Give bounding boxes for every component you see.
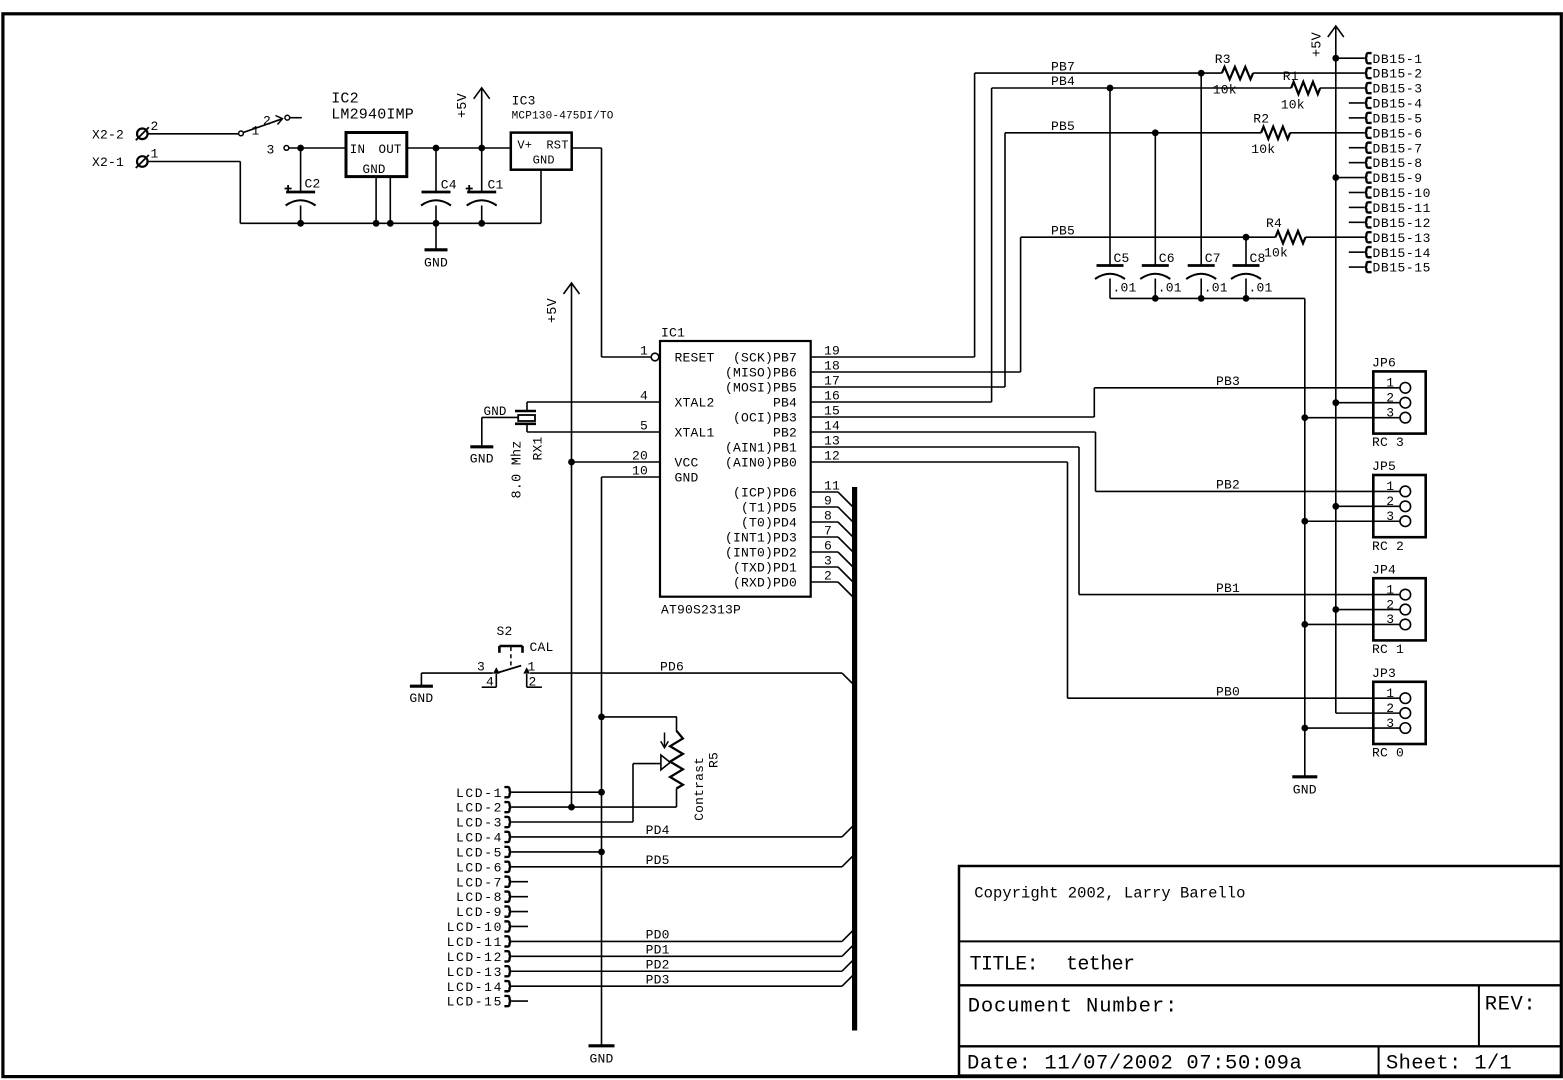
svg-text:PD3: PD3 <box>646 972 670 987</box>
pin number 14 <box>824 419 840 434</box>
svg-text:C2: C2 <box>305 177 321 192</box>
svg-text:DB15-10: DB15-10 <box>1373 186 1431 201</box>
stub wire LCD-8 <box>511 896 528 898</box>
label R5 (rotated) <box>706 752 721 768</box>
svg-text:GND: GND <box>409 691 433 706</box>
wire LCD-3 to R5 wiper <box>511 764 661 822</box>
capacitor C6 <box>1140 133 1175 299</box>
connector JP5 <box>1373 475 1425 537</box>
label IC3 <box>512 93 536 108</box>
svg-text:Copyright 2002, Larry Barello: Copyright 2002, Larry Barello <box>974 885 1245 903</box>
svg-text:PB5: PB5 <box>1051 223 1075 238</box>
wire net PB4 (IC1 pin 16 to R1 and DB15-3) <box>811 85 1291 402</box>
wire R3 to DB15-2 <box>1253 72 1364 74</box>
svg-text:10k: 10k <box>1251 142 1275 157</box>
svg-text:LM2940IMP: LM2940IMP <box>331 106 414 123</box>
wire net PD1 from LCD-12 to bus <box>511 945 853 957</box>
svg-text:GND: GND <box>470 451 494 466</box>
resistor R4 <box>1276 231 1306 243</box>
resistor R3 <box>1222 67 1253 79</box>
label RC 0 <box>1372 746 1404 761</box>
svg-text:X2-2: X2-2 <box>92 127 124 142</box>
connector X2-2 <box>92 119 159 142</box>
svg-text:V+: V+ <box>517 139 532 153</box>
connector pin DB15-12 <box>1349 216 1431 231</box>
resistor R2 <box>1261 127 1290 139</box>
net label GND at resonator <box>484 405 507 419</box>
net label PB4 <box>1051 74 1075 89</box>
svg-text:Date: 11/07/2002 07:50:09a: Date: 11/07/2002 07:50:09a <box>967 1053 1302 1076</box>
net label PD2 <box>646 957 670 972</box>
pin number 12 <box>824 449 840 464</box>
svg-text:XTAL1: XTAL1 <box>675 425 715 440</box>
svg-text:PB3: PB3 <box>1216 374 1240 389</box>
net label PD4 <box>646 823 670 838</box>
pin number 4 <box>640 389 648 404</box>
S2 pin number 4 <box>482 674 497 690</box>
svg-text:TITLE:: TITLE: <box>970 954 1038 977</box>
capacitor C7 <box>1186 73 1221 298</box>
label CAL <box>530 640 554 655</box>
wire IC1 PD5 pin to bus <box>811 507 854 523</box>
svg-text:GND: GND <box>533 154 555 168</box>
svg-text:XTAL2: XTAL2 <box>675 395 715 410</box>
svg-text:IC3: IC3 <box>512 93 536 108</box>
connector pin LCD-10 <box>447 920 512 935</box>
wire net PB5 (IC1 pin 17 to R2 and DB15-6) <box>811 129 1261 387</box>
svg-text:PD2: PD2 <box>646 957 670 972</box>
value label 10k of R3 <box>1213 83 1237 98</box>
wire GND to JP5 pin 3 <box>1305 520 1400 522</box>
svg-text:RC 1: RC 1 <box>1372 642 1404 657</box>
svg-text:RC 0: RC 0 <box>1372 746 1404 761</box>
svg-text:1: 1 <box>1386 686 1394 701</box>
microcontroller IC1 AT90S2313P <box>660 341 811 597</box>
label RC 3 <box>1372 435 1404 450</box>
pin number 20 <box>632 449 648 464</box>
connector pin DB15-15 <box>1349 261 1431 276</box>
svg-text:LCD-11: LCD-11 <box>447 935 503 950</box>
value label .01 of C5 <box>1113 280 1137 295</box>
svg-text:LCD-6: LCD-6 <box>456 860 503 875</box>
net label PB2 <box>1216 478 1240 493</box>
wire IC1 XTAL1 pin 5 <box>527 431 660 433</box>
value label .01 of C6 <box>1158 280 1182 295</box>
wire GND to JP6 pin 3 <box>1305 417 1400 419</box>
capacitor C1 <box>466 148 504 223</box>
value label 10k of R2 <box>1251 142 1275 157</box>
wire IC1 XTAL2 pin 4 <box>527 401 660 403</box>
value label .01 of C7 <box>1204 280 1228 295</box>
svg-text:MCP130-475DI/TO: MCP130-475DI/TO <box>512 110 614 122</box>
svg-text:10k: 10k <box>1264 246 1288 261</box>
svg-text:LCD-8: LCD-8 <box>456 890 503 905</box>
svg-text:S2: S2 <box>497 624 513 639</box>
svg-text:JP3: JP3 <box>1372 666 1396 681</box>
wire +5V to JP3 pin 2 <box>1336 712 1400 714</box>
connector pin LCD-4 <box>456 831 511 846</box>
pin number 18 <box>824 359 840 374</box>
wire net PD2 from LCD-13 to bus <box>511 960 853 972</box>
stub wire LCD-9 <box>511 911 528 913</box>
connector pin DB15-14 <box>1349 246 1431 261</box>
svg-text:PB2: PB2 <box>773 425 797 440</box>
svg-text:+5V: +5V <box>1310 31 1325 57</box>
svg-text:PD4: PD4 <box>646 823 670 838</box>
svg-text:C8: C8 <box>1250 251 1266 266</box>
connector pin LCD-14 <box>447 980 512 995</box>
ground symbol at S2 <box>409 686 433 706</box>
stub wire LCD-7 <box>511 881 528 883</box>
svg-text:IC1: IC1 <box>661 326 685 341</box>
svg-text:LCD-5: LCD-5 <box>456 845 503 860</box>
net label PD6 <box>660 659 684 674</box>
label RX1 (rotated) <box>531 436 546 460</box>
connector pin LCD-12 <box>447 950 512 965</box>
svg-text:1: 1 <box>1386 582 1394 597</box>
svg-text:PD1: PD1 <box>646 943 670 958</box>
title block Sheet label <box>1386 1053 1512 1076</box>
svg-text:VCC: VCC <box>675 455 699 470</box>
pin number 2 <box>824 569 832 584</box>
wire IC1 GND pin 10 down to bottom ground <box>598 477 660 1046</box>
connector pin LCD-8 <box>456 890 511 905</box>
svg-text:DB15-1: DB15-1 <box>1373 52 1423 67</box>
capacitor C2 <box>285 148 321 223</box>
svg-text:GND: GND <box>589 1051 613 1066</box>
label IC2 <box>331 91 359 108</box>
connector JP3 <box>1373 682 1425 744</box>
svg-text:DB15-12: DB15-12 <box>1373 216 1431 231</box>
value label 10k of R1 <box>1281 98 1305 113</box>
svg-text:.01: .01 <box>1249 280 1273 295</box>
pin number 16 <box>824 389 840 404</box>
IC1 RESET pin 1 inversion circle <box>651 353 659 361</box>
svg-text:JP6: JP6 <box>1372 356 1396 371</box>
power symbol +5V above IC1 <box>546 283 580 810</box>
svg-text:DB15-8: DB15-8 <box>1373 156 1423 171</box>
wire net PB5 second (IC1 pin 18 to R4 and DB15-13) <box>811 234 1276 372</box>
ground symbol below C4 <box>424 223 448 270</box>
switch S1 power switch <box>239 115 302 150</box>
svg-text:DB15-6: DB15-6 <box>1373 126 1423 141</box>
capacitor C4 <box>421 148 457 223</box>
svg-text:(INT1)PD3: (INT1)PD3 <box>725 530 797 545</box>
connector pin DB15-3 <box>1365 82 1423 97</box>
wire IC1 PD2 pin to bus <box>811 552 854 568</box>
wire R1 to DB15-3 <box>1320 87 1364 89</box>
wire IC3 RST to IC1 RESET <box>572 148 652 357</box>
svg-text:C6: C6 <box>1159 251 1175 266</box>
svg-text:DB15-3: DB15-3 <box>1373 82 1423 97</box>
pin number 19 <box>824 344 840 359</box>
label S2 <box>497 624 513 639</box>
pin number 1 <box>640 344 648 359</box>
switch S1 pin number 3 <box>267 143 275 158</box>
net label PD5 <box>646 853 670 868</box>
svg-text:IC2: IC2 <box>331 91 359 108</box>
title block Date row <box>967 1053 1302 1076</box>
svg-text:1: 1 <box>151 147 159 162</box>
svg-text:3: 3 <box>477 660 485 675</box>
wire X2-1 to ground bus <box>148 162 241 224</box>
connector pin LCD-9 <box>456 905 511 920</box>
label JP6 <box>1372 356 1396 371</box>
ground symbol bottom center <box>589 1046 615 1067</box>
svg-text:DB15-13: DB15-13 <box>1373 231 1431 246</box>
wire net PB3 (IC1 pin 15 to JP6) <box>811 388 1400 417</box>
connector pin DB15-4 <box>1349 97 1423 112</box>
label RC 2 <box>1372 539 1404 554</box>
svg-text:1: 1 <box>1386 376 1394 391</box>
title block frame <box>959 866 1561 1076</box>
stub wire LCD-15 <box>511 1000 528 1002</box>
svg-text:DB15-2: DB15-2 <box>1373 67 1423 82</box>
wire LCD-2 to +5V and R5 bottom <box>511 806 676 808</box>
net label PD0 <box>646 928 670 943</box>
wire net PB7 (IC1 pin 19 to R3 and DB15-2) <box>811 70 1222 357</box>
resistor R1 <box>1291 82 1320 94</box>
label R1 <box>1283 69 1299 84</box>
pin number 3 <box>824 554 832 569</box>
svg-text:R1: R1 <box>1283 69 1299 84</box>
wire IC1 PD0 pin to bus <box>811 582 854 598</box>
svg-text:RST: RST <box>546 139 568 153</box>
wire net PB1 (IC1 pin 13 to JP4) <box>811 447 1400 595</box>
svg-text:DB15-14: DB15-14 <box>1373 246 1431 261</box>
title block REV label <box>1485 994 1537 1017</box>
capacitor C5 <box>1095 88 1130 298</box>
wire net PD3 from LCD-14 to bus <box>511 975 853 987</box>
value label LM2940IMP <box>331 106 414 123</box>
svg-text:(SCK)PB7: (SCK)PB7 <box>733 350 797 365</box>
label JP3 <box>1372 666 1396 681</box>
pin number 6 <box>824 539 832 554</box>
svg-text:OUT: OUT <box>379 143 402 157</box>
ground bus wire under IC2 <box>240 220 541 227</box>
power symbol +5V at IC2 output <box>456 88 490 148</box>
connector pin DB15-13 <box>1365 231 1431 246</box>
svg-text:R3: R3 <box>1215 52 1231 67</box>
net label PB0 <box>1216 684 1240 699</box>
wire S1 pin 3 to IC2 IN <box>289 145 346 152</box>
net label PB7 <box>1051 59 1075 74</box>
svg-text:PD6: PD6 <box>660 659 684 674</box>
svg-text:PD5: PD5 <box>646 853 670 868</box>
svg-text:X2-1: X2-1 <box>92 155 124 170</box>
data bus bar <box>852 487 857 1031</box>
connector pin DB15-8 <box>1349 156 1423 171</box>
svg-text:PB5: PB5 <box>1051 119 1075 134</box>
svg-text:DB15-9: DB15-9 <box>1373 171 1423 186</box>
svg-text:LCD-13: LCD-13 <box>447 965 503 980</box>
svg-text:DB15-15: DB15-15 <box>1373 261 1431 276</box>
svg-text:LCD-12: LCD-12 <box>447 950 503 965</box>
svg-text:PB4: PB4 <box>1051 74 1075 89</box>
svg-text:LCD-9: LCD-9 <box>456 905 503 920</box>
svg-text:IN: IN <box>350 143 365 157</box>
net label PD3 <box>646 972 670 987</box>
svg-text:8.0 Mhz: 8.0 Mhz <box>511 440 526 498</box>
svg-text:DB15-5: DB15-5 <box>1373 111 1423 126</box>
potentiometer R5 Contrast <box>661 717 683 807</box>
svg-text:1: 1 <box>640 344 648 359</box>
connector pin LCD-15 <box>447 995 512 1010</box>
pin number 9 <box>824 494 832 509</box>
wire net PD5 from LCD-6 to bus <box>511 855 853 867</box>
wire IC2 OUT to IC3 V+ (+5V net) <box>407 145 511 152</box>
wire net PB2 (IC1 pin 14 to JP5) <box>811 432 1400 491</box>
svg-text:RESET: RESET <box>675 350 715 365</box>
svg-text:LCD-4: LCD-4 <box>456 831 503 846</box>
svg-text:(RXD)PD0: (RXD)PD0 <box>733 575 797 590</box>
svg-text:LCD-14: LCD-14 <box>447 980 503 995</box>
svg-text:(T1)PD5: (T1)PD5 <box>741 500 797 515</box>
connector pin LCD-3 <box>456 816 511 831</box>
svg-text:2: 2 <box>151 119 159 134</box>
pin number 17 <box>824 374 840 389</box>
svg-text:Contrast: Contrast <box>692 757 707 821</box>
svg-text:(TXD)PD1: (TXD)PD1 <box>733 560 797 575</box>
connector pin DB15-1 <box>1336 52 1423 67</box>
svg-text:LCD-15: LCD-15 <box>447 995 503 1010</box>
wire GND to JP4 pin 3 <box>1305 623 1400 625</box>
wire LCD-1 to ground <box>511 791 601 793</box>
connector pin DB15-2 <box>1365 67 1423 82</box>
svg-text:DB15-11: DB15-11 <box>1373 201 1431 216</box>
svg-text:(OCI)PB3: (OCI)PB3 <box>733 410 797 425</box>
wire IC1 PD1 pin to bus <box>811 567 854 583</box>
wire resonator center pin to ground <box>482 417 518 446</box>
value label .01 of C8 <box>1249 280 1273 295</box>
net label PB3 <box>1216 374 1240 389</box>
power symbol +5V top right <box>1310 26 1344 713</box>
pin number 8 <box>824 509 832 524</box>
svg-text:(ICP)PD6: (ICP)PD6 <box>733 485 797 500</box>
svg-text:RC 2: RC 2 <box>1372 539 1404 554</box>
svg-text:10k: 10k <box>1281 98 1305 113</box>
net label PB5 (lower) <box>1051 223 1075 238</box>
label JP5 <box>1372 459 1396 474</box>
svg-text:AT90S2313P: AT90S2313P <box>661 603 741 618</box>
svg-text:(T0)PD4: (T0)PD4 <box>741 515 797 530</box>
svg-text:3: 3 <box>267 143 275 158</box>
ground symbol right side <box>1292 777 1317 798</box>
svg-text:Document Number:: Document Number: <box>968 996 1178 1019</box>
ground symbol at resonator <box>470 447 494 467</box>
connector pin LCD-1 <box>456 786 511 801</box>
svg-text:1: 1 <box>252 124 260 139</box>
connector X2-1 <box>92 147 159 170</box>
svg-text:PB2: PB2 <box>1216 478 1240 493</box>
svg-text:tether: tether <box>1066 954 1134 977</box>
wire LCD-5 to ground <box>511 851 601 853</box>
svg-text:(MISO)PB6: (MISO)PB6 <box>725 365 797 380</box>
pin number 13 <box>824 434 840 449</box>
S2 pin number 1 <box>528 660 536 675</box>
pin number 10 <box>632 464 648 479</box>
title block copyright text <box>974 885 1245 903</box>
svg-text:LCD-10: LCD-10 <box>447 920 503 935</box>
svg-text:R4: R4 <box>1266 216 1282 231</box>
svg-text:(AIN0)PB0: (AIN0)PB0 <box>725 455 797 470</box>
connector pin LCD-6 <box>456 860 511 875</box>
svg-text:PB7: PB7 <box>1051 59 1075 74</box>
svg-text:GND: GND <box>363 163 386 177</box>
value label AT90S2313P <box>661 603 741 618</box>
svg-text:20: 20 <box>632 449 648 464</box>
svg-text:LCD-2: LCD-2 <box>456 801 503 816</box>
svg-text:LCD-7: LCD-7 <box>456 875 503 890</box>
svg-text:10k: 10k <box>1213 83 1237 98</box>
svg-text:LCD-3: LCD-3 <box>456 816 503 831</box>
svg-text:.01: .01 <box>1158 280 1182 295</box>
S2 pin number 3 <box>477 660 485 675</box>
wire IC1 PD3 pin to bus <box>811 537 854 553</box>
svg-text:C1: C1 <box>488 178 504 193</box>
connector pin DB15-7 <box>1349 141 1423 156</box>
wire R2 to DB15-6 <box>1290 132 1364 134</box>
wire X2-2 to switch S1 pin 1 <box>148 133 239 135</box>
label JP4 <box>1372 562 1396 577</box>
svg-text:RC 3: RC 3 <box>1372 435 1404 450</box>
connector pin LCD-2 <box>456 801 511 816</box>
connector pin DB15-11 <box>1349 201 1431 216</box>
svg-text:(INT0)PD2: (INT0)PD2 <box>725 545 797 560</box>
resonator RX1 8.0 Mhz <box>515 402 536 432</box>
svg-text:C7: C7 <box>1205 251 1221 266</box>
svg-text:+5V: +5V <box>546 297 561 323</box>
regulator IC2 LM2940IMP <box>346 133 407 178</box>
value label MCP130-475DI/TO <box>512 110 614 122</box>
pin number 15 <box>824 404 840 419</box>
wire +5V branch to R5 top <box>602 716 678 718</box>
svg-text:(MOSI)PB5: (MOSI)PB5 <box>725 380 797 395</box>
net label PB5 <box>1051 119 1075 134</box>
svg-text:PD0: PD0 <box>646 928 670 943</box>
svg-text:(AIN1)PB1: (AIN1)PB1 <box>725 440 797 455</box>
label RC 1 <box>1372 642 1404 657</box>
wire GND to JP3 pin 3 <box>1305 727 1400 729</box>
wire net PD6 from S2 pin 1 to bus <box>530 673 853 684</box>
svg-text:CAL: CAL <box>530 640 554 655</box>
svg-text:DB15-7: DB15-7 <box>1373 141 1423 156</box>
svg-text:.01: .01 <box>1113 280 1137 295</box>
switch S1 pin number 1 <box>252 124 260 139</box>
connector JP4 <box>1373 578 1425 640</box>
connector pin DB15-9 <box>1336 171 1423 186</box>
label Contrast (rotated) <box>692 757 707 821</box>
connector JP6 <box>1373 371 1425 433</box>
svg-text:GND: GND <box>675 470 699 485</box>
pin number 11 <box>824 479 840 494</box>
wire net PB0 (IC1 pin 12 to JP3) <box>811 462 1400 698</box>
connector pin DB15-5 <box>1349 111 1423 126</box>
title block Document Number row <box>968 996 1178 1019</box>
label R3 <box>1215 52 1231 67</box>
wire IC1 PD4 pin to bus <box>811 522 854 538</box>
capacitor C8 <box>1231 237 1266 298</box>
net label PB1 <box>1216 581 1240 596</box>
svg-text:LCD-1: LCD-1 <box>456 786 503 801</box>
pin number 7 <box>824 524 832 539</box>
svg-text:1: 1 <box>528 660 536 675</box>
svg-text:JP5: JP5 <box>1372 459 1396 474</box>
wire R4 to DB15-13 <box>1306 236 1365 238</box>
connector pin LCD-11 <box>447 935 512 950</box>
svg-text:+5V: +5V <box>456 92 471 118</box>
wire +5V to JP5 pin 2 <box>1336 505 1400 507</box>
